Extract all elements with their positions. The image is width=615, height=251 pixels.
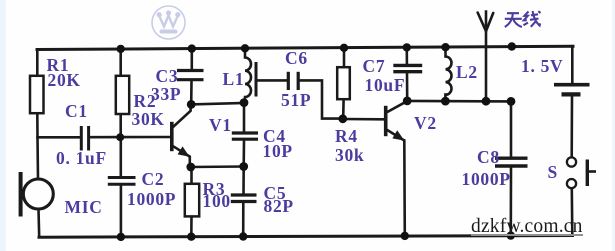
wire V1 emitter node to C4C5 node xyxy=(191,165,244,168)
label R1 xyxy=(47,57,70,75)
wire C1 horizontal left xyxy=(38,136,80,139)
node rail-C8 bottom xyxy=(507,231,515,239)
node V1 emitter xyxy=(186,163,195,172)
wire bottom rail xyxy=(39,236,573,238)
wire R4 top stub xyxy=(343,48,346,67)
label 30K xyxy=(132,111,165,129)
wire R3 bottom stub xyxy=(190,217,193,237)
edge tint right xyxy=(612,0,615,251)
node antenna tap xyxy=(482,97,491,106)
node rail-battery xyxy=(508,42,516,50)
label C3 xyxy=(156,68,179,86)
label 100 xyxy=(203,193,231,211)
label C6 xyxy=(285,50,308,68)
capacitor C7 plates xyxy=(393,65,422,71)
label 1000P xyxy=(127,191,176,209)
label C4 xyxy=(263,128,286,146)
capacitor C5 plates xyxy=(231,195,257,202)
label 20K xyxy=(48,72,81,90)
capacitor C6 plates xyxy=(288,72,298,90)
transistor V1 xyxy=(172,104,191,167)
wire top rail xyxy=(37,46,573,49)
resistor R4 xyxy=(337,67,350,99)
node rail-C5 bottom xyxy=(239,232,247,240)
wire R3 top stub xyxy=(190,167,193,184)
wire battery to switch xyxy=(570,97,573,158)
capacitor C3 plates xyxy=(177,71,204,80)
label C8 xyxy=(477,149,500,167)
wire L2 top stub xyxy=(444,47,447,56)
wire C4 bottom stub xyxy=(242,141,245,167)
label MIC xyxy=(65,199,103,217)
node V2 collector xyxy=(403,97,412,106)
wire C3 top stub xyxy=(191,49,194,69)
label L2 xyxy=(456,64,478,82)
inductor L2 coil xyxy=(446,57,452,95)
wire R4 node to V2 base xyxy=(343,118,385,121)
node rail-R4 xyxy=(340,44,348,52)
capacitor C4 plates xyxy=(232,133,258,139)
wire antenna vertical xyxy=(485,12,488,102)
wire left branch upper (rail corner to R1) xyxy=(36,50,39,77)
node L1 bottom xyxy=(240,98,249,107)
wire C2 bottom stub xyxy=(120,186,123,237)
label R2 xyxy=(134,93,157,111)
wire switch to bottom rail corner xyxy=(570,188,573,235)
label C7 xyxy=(363,58,386,76)
node C1-R2-C2-base xyxy=(116,133,124,141)
inductor L1 coil xyxy=(245,51,252,103)
label 33P xyxy=(151,86,181,104)
wire R2 bottom stub xyxy=(119,114,122,137)
node R4-V2 base xyxy=(338,114,347,123)
label 1000P (C8) xyxy=(462,171,511,189)
label C2 xyxy=(142,171,165,189)
label S xyxy=(548,164,558,182)
wire C3 bottom to V1 collector node xyxy=(190,81,193,104)
resistor R1 xyxy=(30,76,44,113)
wire C6 right, down, to R4 node xyxy=(300,80,343,118)
switch S xyxy=(567,157,596,188)
node rail-C2 bottom xyxy=(117,233,125,241)
capacitor C1 plates xyxy=(81,126,88,151)
label 0.1uF xyxy=(56,150,107,168)
resistor R2 xyxy=(116,76,129,114)
node V1 collector xyxy=(187,100,196,109)
wire C5 bottom stub xyxy=(242,203,245,237)
node rail-L1 xyxy=(241,44,249,52)
node rail-R3 bottom xyxy=(187,233,195,241)
edge tint left xyxy=(0,0,6,251)
resistor R3 xyxy=(185,184,199,217)
wire R2 top stub xyxy=(119,49,122,76)
node rail-V2 emitter xyxy=(401,232,409,240)
wire L2 bottom stub xyxy=(444,95,447,102)
antenna xyxy=(478,13,494,32)
wire MIC bottom to bottom rail corner xyxy=(37,210,40,238)
wire C8 top stub xyxy=(510,101,513,156)
MIC microphone xyxy=(23,179,53,209)
inductor L1 core bar xyxy=(255,62,258,97)
wire C5 top stub xyxy=(242,167,245,194)
node rail-R2 xyxy=(117,45,125,53)
label 10uF xyxy=(365,77,406,95)
label 天线 (antenna) drawn strokes xyxy=(505,11,541,27)
watermark dzkfw.com.cn xyxy=(471,219,583,236)
node L2 bottom xyxy=(441,97,450,106)
node C8 top xyxy=(507,97,516,106)
wire V1 collector node to L1 bottom xyxy=(191,103,244,104)
watermark logo circle-W xyxy=(152,6,185,39)
node rail-C7 xyxy=(403,43,411,51)
label R4 xyxy=(335,128,358,146)
label 1.5V xyxy=(521,58,563,76)
battery B 1.5V xyxy=(554,85,590,95)
capacitor C2 plates xyxy=(108,178,136,185)
wire C1 right to node to V1 base xyxy=(90,136,171,139)
label 10P xyxy=(263,143,293,161)
wire V2 emitter down to rail xyxy=(403,141,406,236)
label L1 xyxy=(223,71,245,89)
capacitor C8 plates xyxy=(495,158,528,166)
wire L1 tap to C6 xyxy=(257,79,287,82)
wire C8 bottom stub xyxy=(509,168,512,236)
wire left branch R1 to C1 node to MIC xyxy=(36,113,39,179)
wire collector rail V2 (second wire) xyxy=(407,100,511,103)
label C1 xyxy=(65,103,88,121)
wire R4 bottom stub xyxy=(342,99,345,118)
label V1 xyxy=(209,117,232,135)
label 82P xyxy=(264,198,294,216)
wire C7 top stub xyxy=(405,47,408,63)
wire C7 bottom stub xyxy=(406,73,409,101)
label 51P xyxy=(281,92,311,110)
label C5 xyxy=(264,185,287,203)
label V2 xyxy=(414,115,437,133)
wire battery top from rail corner xyxy=(571,46,574,83)
label R3 xyxy=(203,181,226,199)
node rail-L2 xyxy=(441,43,449,51)
label 30k xyxy=(335,147,364,165)
node C4-C5 xyxy=(239,162,248,171)
wire C2 top stub xyxy=(120,137,123,176)
transistor V2 xyxy=(386,101,407,140)
node rail-C3 xyxy=(188,44,196,52)
wire C4 top stub xyxy=(243,103,246,131)
